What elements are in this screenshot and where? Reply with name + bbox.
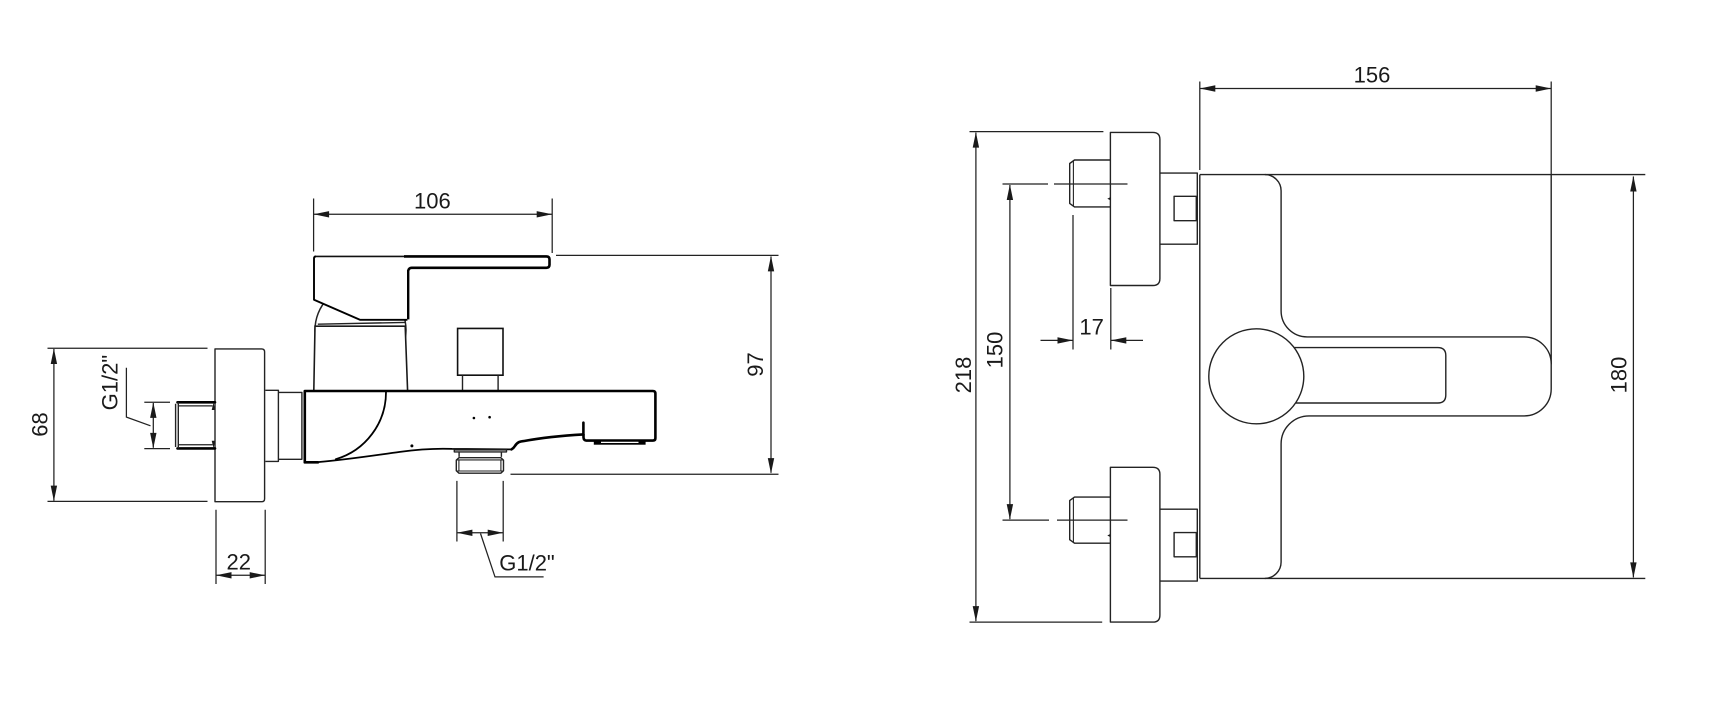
svg-text:22: 22 [226, 550, 250, 575]
svg-text:17: 17 [1079, 315, 1103, 340]
svg-text:G1/2": G1/2" [98, 355, 123, 411]
svg-text:180: 180 [1607, 357, 1632, 394]
svg-text:218: 218 [951, 357, 976, 394]
svg-text:150: 150 [983, 332, 1008, 369]
svg-text:G1/2": G1/2" [499, 551, 555, 576]
svg-text:97: 97 [743, 352, 768, 376]
svg-text:68: 68 [28, 412, 53, 436]
svg-text:156: 156 [1354, 63, 1391, 88]
svg-text:106: 106 [414, 189, 451, 214]
